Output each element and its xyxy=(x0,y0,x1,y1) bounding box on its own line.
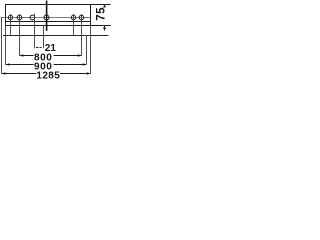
mounting hole 3 xyxy=(30,15,35,20)
dim 21 dashes xyxy=(36,47,38,49)
dim 75 vertical stub top with arrow xyxy=(104,5,106,8)
fixture body right edge + 1285 right extension line xyxy=(90,5,92,26)
hole 5 cross line down to ceiling xyxy=(73,14,75,36)
mounting hole 4 xyxy=(44,15,49,20)
fixture body left edge + 900 left extension line xyxy=(5,5,7,26)
dim 1285 line right segment with arrow xyxy=(60,73,91,75)
fixture body lower line xyxy=(5,21,91,23)
21 dim right extension line xyxy=(43,26,45,49)
fixture body top edge + 75 top extension line xyxy=(5,4,111,6)
hole 3 extension line down to 21 dim xyxy=(34,14,36,49)
svg-text:75: 75 xyxy=(96,7,108,21)
hole centerline xyxy=(1,17,91,19)
fixture body bottom edge + 75 bottom extension line xyxy=(5,25,111,27)
svg-text:1285: 1285 xyxy=(36,70,60,81)
900 right extension line xyxy=(86,36,88,65)
ceiling line xyxy=(3,35,109,37)
hole 1 cross line down to ceiling xyxy=(10,14,12,36)
dim 900 line right segment with arrow xyxy=(54,64,87,66)
1285 left extension line xyxy=(1,18,3,74)
dim 1285 line left segment with arrow xyxy=(2,73,37,75)
mounting hole 2 xyxy=(17,15,22,20)
dim 75 vertical stub bottom with arrow xyxy=(104,26,106,31)
hole 2 extension line down to 800 dim xyxy=(19,14,21,56)
dim 900 line left segment with arrow xyxy=(6,64,34,66)
power cable entry line xyxy=(46,1,48,31)
mounting hole 1 xyxy=(8,15,12,19)
hole 6 extension line down to 800 dim xyxy=(81,14,83,56)
mounting hole 5 xyxy=(71,15,75,19)
dim 800 line right segment with arrow xyxy=(54,55,82,57)
dim 800 line left segment with arrow xyxy=(20,55,34,57)
mounting hole 6 xyxy=(79,15,84,20)
